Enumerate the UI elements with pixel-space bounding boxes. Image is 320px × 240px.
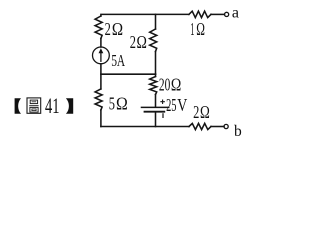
resistor 2ohm middle zigzag [150, 29, 157, 52]
wire to terminal a [211, 13, 224, 15]
resistor 5ohm zigzag [95, 89, 102, 110]
svg-text:1: 1 [190, 19, 194, 39]
svg-text:Ω: Ω [116, 94, 128, 114]
resistor R 1ohm zigzag [189, 11, 211, 17]
wire battery to bottom [155, 113, 157, 127]
svg-text:Ω: Ω [171, 74, 181, 94]
svg-text:41: 41 [45, 93, 60, 118]
figure label left bracket [15, 98, 21, 114]
battery 25V bottom plate [145, 111, 165, 113]
svg-text:A: A [117, 51, 125, 70]
svg-text:Ω: Ω [200, 102, 210, 122]
wire middle horizontal [101, 73, 156, 75]
svg-text:2: 2 [105, 19, 111, 39]
svg-text:a: a [232, 5, 239, 22]
resistor 2ohm bottom zigzag [189, 123, 211, 129]
svg-text:5: 5 [109, 94, 115, 114]
battery minus tick [162, 114, 164, 118]
wire 2ohm middle to junction [155, 52, 157, 75]
wire current source to 5ohm [100, 64, 102, 89]
battery plus sign [161, 100, 164, 103]
wire 20ohm to battery [155, 95, 157, 107]
terminal b circle [224, 124, 228, 128]
svg-text:V: V [177, 95, 187, 115]
svg-text:20: 20 [159, 74, 170, 94]
svg-text:Ω: Ω [137, 32, 147, 52]
wire top left segment [101, 14, 189, 16]
current source I 5A circle [93, 47, 110, 64]
svg-text:Ω: Ω [112, 19, 123, 39]
svg-text:b: b [234, 123, 242, 140]
terminal a circle [225, 12, 229, 16]
resistor 20ohm zigzag [150, 77, 157, 95]
wire junction to 20ohm [155, 74, 157, 76]
wire bottom horizontal [101, 126, 189, 128]
svg-text:Ω: Ω [196, 19, 205, 39]
svg-text:2: 2 [130, 32, 136, 52]
wire to terminal b [211, 126, 224, 128]
current source arrowhead [99, 48, 104, 53]
wire resistor to current source [100, 39, 102, 48]
svg-text:2: 2 [193, 102, 199, 122]
svg-text:25: 25 [166, 95, 176, 115]
figure label right bracket [66, 98, 73, 114]
figure label glyph tu (picture) [27, 98, 41, 113]
resistor 2ohm left zigzag [95, 16, 102, 39]
current source arrow shaft [100, 53, 102, 62]
wire 5ohm to bottom [100, 110, 102, 127]
battery 25V top plate [142, 106, 169, 108]
wire top to middle 2ohm [155, 14, 157, 29]
